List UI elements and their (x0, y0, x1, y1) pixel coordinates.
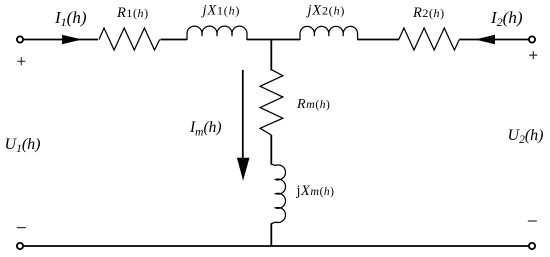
svg-text:jX1(h): jX1(h) (201, 3, 241, 19)
terminal top-left (17, 36, 23, 42)
terminal top-right (529, 36, 535, 42)
wire between jX2 and R2 (358, 39, 399, 41)
terminal bottom-right (529, 243, 535, 249)
wire between R1 and jX1 (160, 39, 187, 41)
node junction wire (270, 40, 272, 71)
terminal bottom-left (17, 243, 23, 249)
svg-text:jX2(h): jX2(h) (306, 3, 346, 19)
wire between jX1 and jX2 through node (247, 39, 300, 41)
svg-text:I2(h): I2(h) (490, 8, 523, 29)
plus sign left (17, 57, 25, 65)
svg-text:U1(h): U1(h) (5, 136, 41, 155)
minus sign right (528, 220, 537, 222)
wire top-right segment (460, 39, 529, 41)
bottom rail wire (24, 245, 529, 247)
inductor jX2(h) (300, 26, 358, 40)
minus sign left (17, 227, 26, 229)
current arrow I1 (62, 35, 82, 45)
svg-text:U2(h): U2(h) (508, 127, 544, 146)
plus sign right (529, 51, 537, 59)
svg-text:R2(h): R2(h) (412, 5, 445, 21)
current arrow I2 (475, 35, 495, 45)
svg-text:R1(h): R1(h) (116, 5, 149, 21)
svg-text:jXm(h): jXm(h) (296, 183, 335, 199)
svg-text:Rm(h): Rm(h) (296, 97, 330, 112)
wire below jXm (270, 223, 272, 246)
inductor jXm(h) (271, 164, 285, 223)
resistor Rm(h) (260, 70, 283, 135)
wire top-left segment (24, 39, 98, 41)
wire between Rm and jXm (270, 135, 272, 165)
magnetizing current arrow Im (242, 70, 244, 159)
resistor R1(h) (99, 28, 160, 50)
inductor jX1(h) (187, 26, 247, 40)
resistor R2(h) (399, 28, 460, 50)
svg-text:I1(h): I1(h) (54, 8, 87, 29)
svg-text:Im(h): Im(h) (189, 119, 222, 139)
